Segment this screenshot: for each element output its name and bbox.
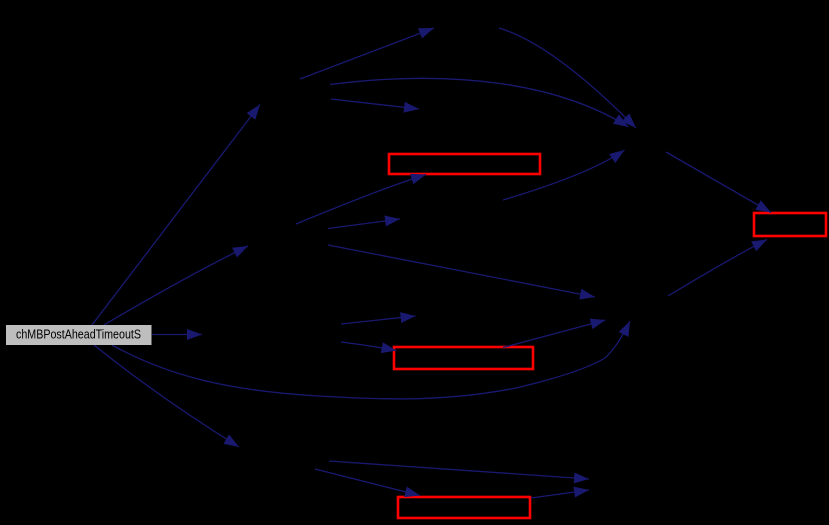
svg-text:chMBPostAheadTimeoutS: chMBPostAheadTimeoutS [16, 327, 141, 341]
